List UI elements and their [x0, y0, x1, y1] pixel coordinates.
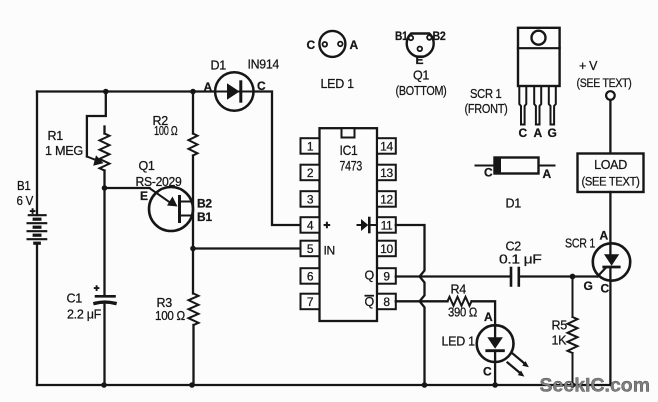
pin 5	[301, 241, 320, 257]
node pin5 junction	[190, 246, 196, 252]
resistor R1	[87, 127, 110, 171]
wire LOAD to SCR anode	[609, 192, 611, 244]
pin 1	[301, 138, 320, 154]
svg-text:6: 6	[307, 270, 314, 284]
package SCR1 TO-220	[518, 28, 560, 125]
svg-text:R4: R4	[451, 283, 467, 297]
svg-text:3: 3	[307, 193, 314, 207]
node E junction	[102, 185, 108, 191]
pin 2	[301, 165, 320, 181]
svg-text:13: 13	[380, 166, 393, 180]
IC clock symbol at pin 11	[358, 218, 376, 232]
svg-text:A: A	[534, 126, 543, 140]
package Q1 bottom view	[407, 34, 434, 57]
svg-text:+ V: + V	[579, 59, 598, 73]
svg-text:C: C	[257, 79, 266, 93]
label battery plus	[30, 208, 36, 214]
svg-text:LED 1: LED 1	[442, 335, 476, 349]
pin 14	[377, 138, 396, 154]
resistor R5	[568, 277, 578, 386]
pin 12	[377, 191, 396, 207]
node bottom LED1	[492, 382, 498, 388]
wire emitter	[105, 187, 150, 189]
svg-text:LOAD: LOAD	[594, 158, 627, 172]
IC U1 body	[320, 128, 378, 321]
wire R4 to LED1	[472, 301, 496, 326]
wire pin 9 to C2	[396, 275, 511, 277]
svg-text:Q: Q	[365, 295, 375, 309]
svg-text:E: E	[416, 53, 424, 67]
svg-text:Q1: Q1	[139, 159, 155, 173]
pin 9	[377, 268, 396, 284]
svg-text:1: 1	[307, 140, 314, 154]
svg-text:0.1 μF: 0.1 μF	[499, 253, 542, 267]
capacitor C2	[511, 268, 519, 286]
svg-text:C1: C1	[67, 292, 83, 306]
pin 4	[301, 217, 320, 233]
pin 6	[301, 268, 320, 284]
svg-text:4: 4	[307, 219, 314, 233]
node top-left junction (R1 wiper tap)	[103, 89, 109, 95]
svg-text:IC1: IC1	[340, 142, 358, 158]
svg-text:9: 9	[383, 270, 390, 284]
svg-text:1K: 1K	[552, 334, 568, 348]
label C1 plus	[94, 285, 100, 291]
label plus at pin4	[324, 222, 331, 229]
svg-text:(FRONT): (FRONT)	[465, 102, 508, 116]
svg-text:(SEE TEXT): (SEE TEXT)	[577, 78, 632, 90]
resistor R3	[189, 294, 199, 326]
svg-text:D1: D1	[506, 197, 522, 211]
box LOAD	[578, 154, 644, 193]
svg-text:E: E	[140, 189, 148, 203]
svg-text:R1: R1	[48, 129, 64, 143]
svg-text:A: A	[543, 167, 552, 181]
svg-text:12: 12	[380, 193, 393, 207]
svg-text:C: C	[519, 126, 528, 140]
wire R1 bottom to C1	[103, 171, 105, 295]
svg-text:A: A	[600, 229, 609, 243]
wire pin 11	[396, 225, 425, 385]
svg-text:C2: C2	[506, 240, 522, 254]
svg-text:SeekIC.com: SeekIC.com	[540, 375, 651, 397]
wire +V to LOAD	[609, 100, 611, 154]
pin 8	[377, 294, 396, 310]
svg-text:B1: B1	[197, 210, 212, 224]
svg-text:Q1: Q1	[413, 69, 429, 83]
svg-text:A: A	[350, 38, 359, 52]
wire R1 wiper arm	[87, 92, 106, 157]
wire R2/R3 vertical chain	[192, 92, 194, 134]
wire C1 bottom	[103, 305, 105, 385]
transistor Q1	[149, 187, 193, 231]
wire R3 bottom	[192, 325, 194, 385]
svg-text:R3: R3	[157, 296, 173, 310]
svg-text:C: C	[601, 282, 610, 296]
terminal +V	[606, 91, 615, 100]
svg-text:5: 5	[307, 242, 314, 256]
wire left rail upper	[36, 92, 38, 216]
wire top rail	[37, 92, 301, 226]
pin 10	[377, 241, 396, 257]
battery B1	[28, 215, 47, 243]
wire left rail lower	[36, 244, 38, 386]
wire bottom rail	[37, 384, 610, 386]
svg-text:11: 11	[381, 219, 393, 233]
svg-text:B2: B2	[197, 197, 212, 211]
pin 13	[377, 165, 396, 181]
svg-text:LED 1: LED 1	[321, 77, 355, 91]
svg-text:1 MEG: 1 MEG	[45, 144, 83, 158]
LED1 light arrows	[508, 353, 529, 377]
IC notch	[342, 128, 355, 137]
node bottom pin11 wire	[422, 382, 428, 388]
pin numbers	[307, 140, 394, 310]
svg-text:B1: B1	[395, 29, 408, 43]
svg-text:2.2 μF: 2.2 μF	[67, 308, 102, 322]
svg-text:C: C	[307, 38, 316, 52]
svg-text:6 V: 6 V	[17, 194, 34, 208]
node bottom R5	[570, 382, 576, 388]
svg-text:SCR 1: SCR 1	[565, 237, 595, 251]
node top junction (R2 top)	[190, 89, 196, 95]
pin 3	[301, 191, 320, 207]
svg-text:C: C	[484, 166, 493, 180]
svg-text:14: 14	[380, 140, 393, 154]
svg-text:G: G	[584, 279, 593, 293]
svg-text:A: A	[484, 310, 493, 324]
package LED1 pinout	[319, 31, 345, 57]
pin 7	[301, 294, 320, 310]
resistor R4	[448, 297, 472, 306]
svg-text:RS-2029: RS-2029	[136, 175, 182, 189]
wire pin 8 to R4	[396, 300, 448, 302]
wire R2 bottom to R3 top	[192, 156, 194, 294]
LED LED1	[477, 325, 514, 385]
svg-text:R5: R5	[552, 319, 568, 333]
wire C2 to gate node	[519, 275, 598, 277]
svg-text:2: 2	[307, 166, 314, 180]
svg-text:Q: Q	[365, 269, 375, 283]
svg-text:B2: B2	[433, 29, 447, 43]
svg-text:7473: 7473	[340, 158, 363, 174]
diode D1	[215, 72, 253, 110]
svg-text:G: G	[548, 126, 557, 140]
svg-text:SCR 1: SCR 1	[470, 87, 502, 101]
svg-text:IN914: IN914	[248, 58, 280, 72]
node bottom R3	[189, 382, 195, 388]
resistor R2	[189, 134, 198, 156]
svg-text:390 Ω: 390 Ω	[448, 306, 477, 320]
svg-text:D1: D1	[211, 59, 227, 73]
svg-text:8: 8	[383, 295, 390, 309]
svg-text:100 Ω: 100 Ω	[155, 309, 185, 323]
pin 11	[377, 217, 396, 233]
wire to pin 5	[193, 247, 301, 249]
svg-text:10: 10	[380, 242, 393, 256]
node gate junction	[570, 274, 576, 280]
node bottom C1	[101, 382, 107, 388]
package D1 axial	[476, 158, 555, 174]
svg-text:7: 7	[307, 295, 314, 309]
svg-text:A: A	[204, 80, 213, 94]
svg-text:IN: IN	[324, 244, 335, 258]
svg-text:(BOTTOM): (BOTTOM)	[396, 84, 447, 98]
svg-text:100 Ω: 100 Ω	[154, 124, 178, 138]
capacitor C1	[95, 296, 115, 303]
svg-text:(SEE TEXT): (SEE TEXT)	[582, 177, 640, 189]
SCR1 symbol	[593, 243, 630, 385]
svg-text:C: C	[483, 365, 492, 379]
svg-text:B1: B1	[17, 179, 31, 193]
